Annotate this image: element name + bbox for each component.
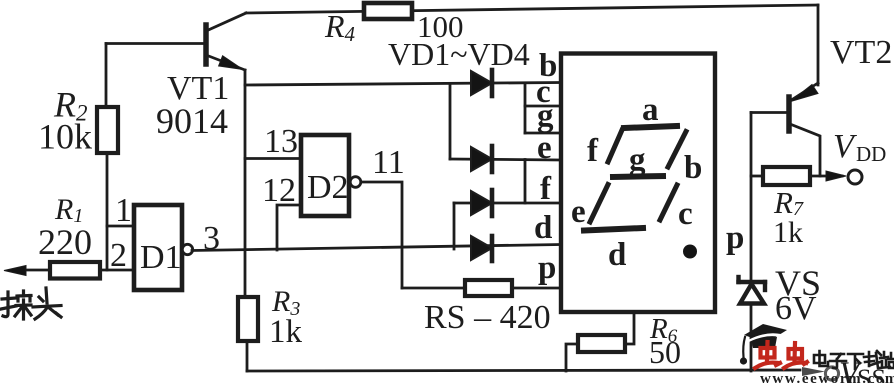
segment b: [668, 132, 686, 168]
svg-text:6V: 6V: [775, 290, 817, 327]
svg-text:D2: D2: [307, 169, 349, 206]
watermark 电子下载站: [814, 351, 894, 369]
svg-text:12: 12: [262, 172, 296, 209]
resistor R4: [364, 3, 412, 19]
wire VT1 emitter vertical: [244, 70, 247, 297]
svg-text:13: 13: [264, 123, 298, 160]
wire p row left: [402, 287, 465, 290]
segment letters: [571, 92, 702, 273]
label VSS: [839, 356, 886, 383]
svg-text:1: 1: [115, 192, 132, 229]
pin labels b c g e f d p: [534, 48, 744, 286]
svg-text:b: b: [684, 150, 702, 186]
svg-text:220: 220: [38, 222, 92, 262]
wire VT1 base to left vertical: [106, 42, 206, 45]
segment d: [584, 228, 643, 231]
svg-text:p: p: [538, 250, 556, 286]
svg-text:10k: 10k: [38, 117, 92, 157]
segment g: [613, 176, 663, 177]
svg-text:p: p: [726, 220, 744, 256]
segment e: [590, 185, 608, 223]
wire c stub: [525, 105, 560, 108]
label R2 10k: [38, 85, 92, 157]
wire left vertical lower: [106, 153, 109, 270]
wire top rail from VT1 collector to right corner: [246, 5, 818, 85]
wire bcg jumper: [524, 83, 527, 133]
wire right vertical: [750, 113, 753, 372]
label VT2: [830, 34, 892, 71]
resistor RS-420: [465, 280, 512, 296]
svg-text:www.eeworm.com: www.eeworm.com: [760, 371, 894, 383]
watermark 虫虫 red: [755, 342, 807, 368]
seven segment glyph: [584, 126, 697, 259]
wire pin11: [361, 182, 402, 288]
svg-text:V: V: [833, 128, 858, 165]
wire b row: [245, 83, 560, 86]
svg-text:2: 2: [110, 237, 127, 274]
label VD1~VD4: [388, 36, 530, 72]
wire ef jumper: [524, 160, 527, 204]
wire f row: [454, 202, 560, 205]
svg-text:a: a: [642, 92, 659, 128]
svg-text:11: 11: [372, 144, 405, 181]
terminal VSS arrow: [802, 367, 839, 380]
terminal VDD: [848, 170, 862, 184]
svg-text:DD: DD: [856, 142, 886, 166]
svg-text:50: 50: [649, 334, 681, 370]
diode VD3: [471, 190, 492, 216]
watermark www.eeworm.com: [760, 371, 894, 383]
decimal point: [683, 245, 697, 259]
wire bottom rail: [247, 370, 800, 371]
watermark cap logo: [740, 324, 787, 365]
svg-text:1k: 1k: [773, 216, 803, 249]
svg-text:e: e: [537, 130, 552, 166]
segment a: [624, 126, 677, 128]
segment c: [660, 185, 677, 220]
wire VT2 base: [751, 111, 787, 114]
wire D1 output / d row: [192, 245, 560, 251]
diode VD2: [471, 146, 492, 172]
label R6 50: [649, 313, 681, 370]
svg-text:VT2: VT2: [830, 34, 892, 71]
wire VD2 anode jumper: [449, 85, 452, 160]
svg-text:f: f: [540, 171, 552, 207]
wire e row: [450, 159, 560, 160]
wire pin13: [245, 157, 301, 160]
resistor R1: [50, 262, 100, 279]
wire VD3 anode jumper: [453, 203, 456, 249]
wire pin12: [277, 205, 301, 250]
transistor VT1: [206, 13, 246, 70]
svg-text:RS – 420: RS – 420: [424, 299, 551, 336]
resistor R7: [751, 167, 846, 185]
label R4: [324, 8, 464, 46]
label 探头 (probe): [1, 288, 61, 319]
wire p row right: [512, 287, 560, 290]
wire left vertical upper: [105, 44, 108, 108]
svg-text:c: c: [678, 196, 693, 232]
label R1 220: [38, 193, 92, 262]
svg-text:d: d: [534, 210, 552, 246]
svg-text:1k: 1k: [269, 314, 303, 350]
transistor VT2: [789, 83, 820, 176]
wire pin2 / R1 link: [100, 269, 134, 272]
svg-text:VD1~VD4: VD1~VD4: [388, 36, 530, 72]
diode VD1: [471, 70, 492, 96]
svg-text:D1: D1: [140, 239, 182, 276]
wire R3 bottom: [246, 341, 249, 371]
label VS 6V: [775, 263, 821, 327]
zener diode VS: [739, 277, 766, 304]
diode VD4: [471, 236, 492, 261]
svg-text:g: g: [537, 98, 554, 134]
label R3 1k: [269, 285, 303, 350]
label VT1 9014: [156, 70, 229, 141]
label R7 1k: [773, 185, 804, 249]
svg-text:R4: R4: [324, 8, 356, 46]
display block outline: [561, 54, 715, 313]
resistor R6: [566, 312, 634, 371]
svg-text:g: g: [629, 142, 646, 178]
svg-text:9014: 9014: [156, 101, 228, 141]
svg-text:d: d: [608, 237, 626, 273]
segment f: [608, 130, 622, 162]
gate D2: [301, 135, 361, 216]
svg-text:R7: R7: [773, 185, 804, 220]
wire g stub: [525, 132, 560, 135]
wire probe lead with arrow: [4, 266, 50, 276]
svg-text:f: f: [587, 133, 599, 169]
label VDD: [833, 128, 886, 166]
gate D1: [134, 205, 193, 290]
resistor R3: [238, 297, 258, 341]
label RS-420: [424, 299, 551, 336]
svg-text:e: e: [571, 194, 586, 230]
resistor R2: [97, 107, 118, 153]
wire pin1: [107, 225, 134, 228]
